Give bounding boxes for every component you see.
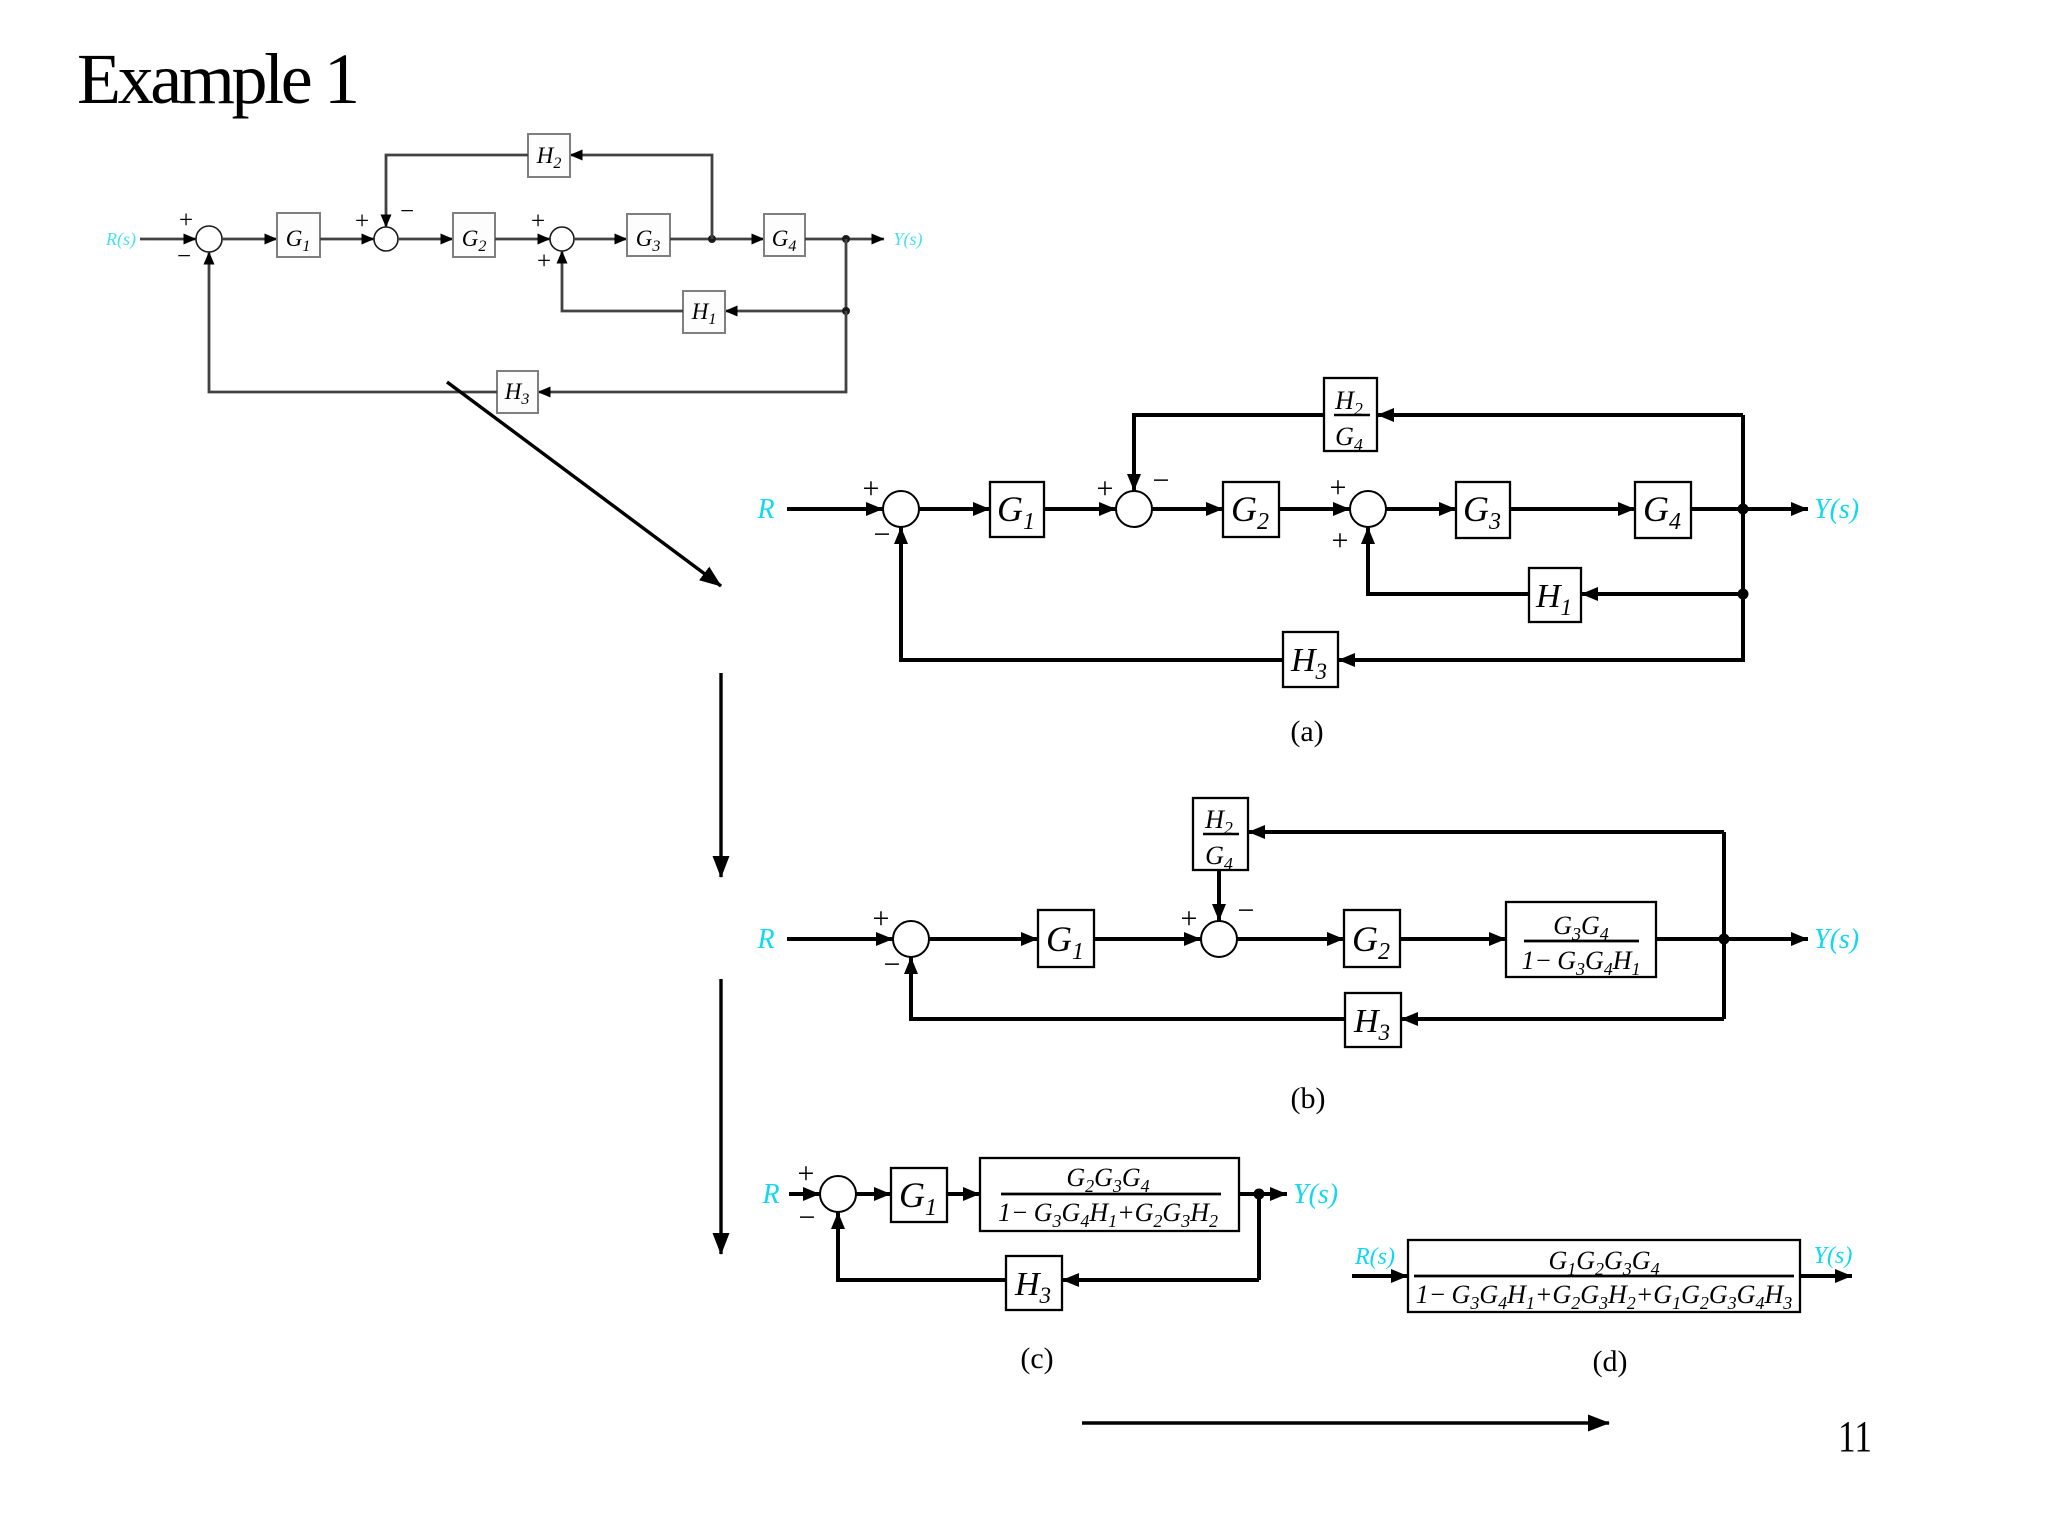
wire G2 to summer S3 <box>495 238 550 241</box>
svg-text:+: + <box>531 208 545 235</box>
summing junction A3 <box>1350 491 1386 527</box>
wire G1 to summer B2 <box>1094 937 1201 941</box>
svg-text:+: + <box>1181 902 1198 935</box>
summing junction C1 <box>820 1176 856 1212</box>
wire S1 to G1 <box>222 238 277 241</box>
svg-text:(a): (a) <box>1290 715 1323 748</box>
svg-text:(d): (d) <box>1593 1345 1628 1378</box>
wire B1 to G1 (b) <box>929 937 1038 941</box>
svg-text:+: + <box>537 248 551 275</box>
takeoff vertical line (c) <box>1257 1194 1261 1280</box>
svg-text:(b): (b) <box>1291 1082 1326 1115</box>
svg-text:R: R <box>761 1179 779 1210</box>
svg-text:−: − <box>177 243 191 270</box>
wire top feedback to H2/G4 block <box>1377 413 1743 417</box>
block H3 (b) <box>1345 993 1401 1047</box>
summing junction S1 <box>196 226 222 252</box>
wire A2 to G2 <box>1152 507 1223 511</box>
wire G4 node down to H1 row <box>725 239 846 311</box>
svg-text:−: − <box>884 948 901 981</box>
wire top feedback to H2/G4 (b) <box>1248 830 1724 834</box>
svg-text:11: 11 <box>1838 1412 1872 1461</box>
wire C1 to G1 (c) <box>856 1192 891 1196</box>
summing junction A1 <box>883 491 919 527</box>
summing junction S2 <box>374 227 398 251</box>
svg-text:+: + <box>863 472 880 505</box>
wire G3G4 block to output Y(s) (b) <box>1656 937 1808 941</box>
block G1 (b) <box>1038 910 1094 967</box>
wire S2 to G2 <box>398 238 453 241</box>
wire G1 to G2G3G4 block (c) <box>947 1192 980 1196</box>
block H3 <box>497 371 538 413</box>
wire G3 to G4 <box>1510 507 1635 511</box>
summing junction B1 <box>893 921 929 957</box>
wire G4 to output Y(s) <box>805 238 884 241</box>
block G1G2G3G4/(1-G3G4H1+G2G3H2+G1G2G3G4H3) <box>1408 1240 1800 1313</box>
takeoff vertical line (b) <box>1722 832 1726 1019</box>
svg-text:R: R <box>756 494 774 525</box>
wire R(s) into block (d) <box>1352 1274 1408 1278</box>
svg-text:G2G3G4: G2G3G4 <box>1066 1163 1149 1196</box>
wire H2/G4 down into summer B2 <box>1217 870 1221 921</box>
block G3G4/(1-G3G4H1) <box>1506 902 1656 979</box>
wire H2/G4 down into summer A2 <box>1134 415 1324 491</box>
svg-text:−: − <box>1153 464 1170 497</box>
junction node H1 tap (a) <box>1738 589 1749 600</box>
svg-text:−: − <box>400 198 414 225</box>
wire bottom feedback row to H3 (c) <box>1062 1278 1259 1282</box>
wire block to Y(s) (d) <box>1800 1274 1852 1278</box>
wire A3 to G3 <box>1386 507 1456 511</box>
wire B2 to G2 (b) <box>1237 937 1344 941</box>
wire G2 to summer A3 <box>1279 507 1350 511</box>
block G4 <box>764 214 805 256</box>
wire G2 to G3G4 block (b) <box>1400 937 1506 941</box>
wire H2 to summer S2 <box>386 155 528 227</box>
block G2 (a) <box>1223 482 1279 537</box>
svg-text:G1G2G3G4: G1G2G3G4 <box>1548 1246 1659 1279</box>
block H3 (c) <box>1006 1256 1062 1310</box>
block G2 (b) <box>1344 910 1400 967</box>
wire R(s) to summer S1 <box>140 238 196 241</box>
block G3 (a) <box>1456 482 1510 538</box>
svg-text:+: + <box>1332 524 1349 557</box>
wire R to summer C1 <box>789 1192 820 1196</box>
svg-text:Example 1: Example 1 <box>77 39 360 119</box>
svg-text:+: + <box>1330 471 1347 504</box>
svg-text:Y(s): Y(s) <box>1814 1243 1853 1269</box>
svg-text:−: − <box>799 1201 816 1234</box>
junction node after G4 (a) <box>1738 504 1749 515</box>
vertical reduction arrow (a) to (b) <box>719 673 722 877</box>
svg-text:Y(s): Y(s) <box>1293 1179 1338 1210</box>
wire R to summer B1 <box>787 937 893 941</box>
wire G1 to summer A2 <box>1044 507 1116 511</box>
junction node after block (b) <box>1719 934 1730 945</box>
wire A1 to G1 <box>919 507 990 511</box>
junction node after G4 <box>842 235 850 243</box>
block H2/G4 fraction (b) <box>1193 798 1248 874</box>
svg-text:−: − <box>874 518 891 551</box>
svg-text:(c): (c) <box>1020 1342 1053 1375</box>
svg-text:+: + <box>1097 472 1114 505</box>
wire H3 to summer S1 <box>209 252 497 392</box>
wire H3 to summer A1 (a) <box>901 527 1283 660</box>
block G3 <box>627 214 670 256</box>
wire takeoff up to H2 feedback <box>570 155 712 239</box>
summing junction B2 <box>1201 921 1237 957</box>
block H1 <box>683 291 725 333</box>
svg-text:+: + <box>798 1157 815 1190</box>
block H2/G4 fraction <box>1324 378 1377 455</box>
wire H3 to summer B1 (b) <box>911 957 1345 1019</box>
wire G4 to output Y(s) (a) <box>1691 507 1808 511</box>
block G1 <box>277 213 320 257</box>
svg-text:Y(s): Y(s) <box>1814 494 1859 525</box>
block G2 <box>453 213 495 257</box>
junction node H1 tap <box>842 307 850 315</box>
svg-text:Y(s): Y(s) <box>893 229 922 250</box>
junction node after block (c) <box>1254 1189 1265 1200</box>
diagonal reduction arrow from original to (a) <box>447 382 721 586</box>
svg-text:R(s): R(s) <box>105 229 136 250</box>
wire G3 to G4 with takeoff node <box>670 238 764 241</box>
block H1 (a) <box>1529 568 1581 622</box>
wire G1 to summer S2 <box>320 238 374 241</box>
wire H1 to summer S3 <box>562 251 683 311</box>
wire H1 to summer A3 (a) <box>1368 527 1529 594</box>
svg-text:R: R <box>756 924 774 955</box>
horizontal reduction arrow (c) to (d) <box>1082 1421 1609 1424</box>
svg-text:+: + <box>873 902 890 935</box>
wire bottom feedback row to H3 (a) <box>1338 594 1743 660</box>
wire R to summer A1 <box>787 507 883 511</box>
vertical reduction arrow (b) to (c) <box>719 979 722 1254</box>
wire S3 to G3 <box>574 238 627 241</box>
block G1 (a) <box>990 482 1044 537</box>
wire H1 feedback row (a) <box>1581 592 1743 596</box>
wire bottom feedback row to H3 (b) <box>1401 1017 1724 1021</box>
wire H3 to summer C1 (c) <box>838 1212 1006 1280</box>
block H2 <box>528 134 570 177</box>
block H3 (a) <box>1283 632 1338 687</box>
wire H1 node down to H3 row <box>538 311 846 392</box>
takeoff vertical line after G4 (a) <box>1741 415 1745 660</box>
summing junction A2 <box>1116 491 1152 527</box>
svg-text:Y(s): Y(s) <box>1814 924 1859 955</box>
svg-text:+: + <box>179 207 193 234</box>
svg-text:−: − <box>1238 894 1255 927</box>
block G2G3G4/(1-G3G4H1+G2G3H2) <box>980 1158 1239 1231</box>
junction node after G3 <box>708 235 716 243</box>
summing junction S3 <box>550 227 574 251</box>
svg-text:R(s): R(s) <box>1354 1244 1395 1270</box>
svg-text:+: + <box>355 208 369 235</box>
wire block to output Y(s) (c) <box>1239 1192 1287 1196</box>
block G4 (a) <box>1635 482 1691 538</box>
block G1 (c) <box>891 1168 947 1222</box>
